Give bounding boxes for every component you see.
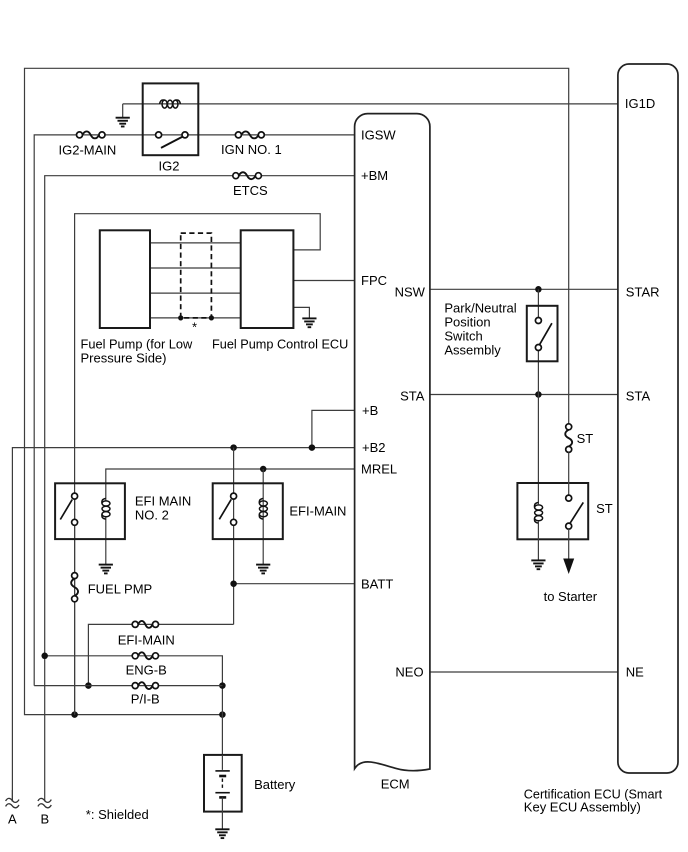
wire battery positive feed to starter circuit (top rail) [25,68,569,714]
pin IGSW [361,127,396,142]
wire STA net [430,394,618,396]
label EFI MAIN NO. 2 [135,493,191,522]
coil EFI-MAIN relay [259,498,267,519]
label *: Shielded note [86,807,149,822]
wire fuel pump to control ECU line 3 [150,292,241,294]
fuse ETCS [233,172,262,179]
junction STA net / park-neutral switch [535,391,542,398]
wire park/neutral switch drop [537,289,539,317]
svg-text:Pressure Side): Pressure Side) [81,350,167,365]
svg-text:Assembly: Assembly [444,342,501,357]
node B break symbol [38,798,51,807]
ground ST relay coil [531,560,545,569]
ground EFI MAIN NO. 2 relay coil [99,565,113,574]
svg-text:IG1D: IG1D [625,96,655,111]
label Fuel Pump (for Low Pressure Side) [81,336,193,365]
fuel pump box [100,230,150,328]
shield drain junction right [209,315,214,320]
label IGN NO. 1 [221,142,282,157]
coil ST relay [535,502,543,523]
ground IG2 relay coil [116,118,130,127]
svg-text:EFI-MAIN: EFI-MAIN [289,503,346,518]
wire ST fuse to relay switch [568,452,570,495]
svg-text:NO. 2: NO. 2 [135,507,169,522]
svg-text:*: Shielded: *: Shielded [86,807,149,822]
pin +B [362,403,378,418]
svg-text:NEO: NEO [395,665,423,680]
pin +BM [361,168,388,183]
junction ENG-B row / node B riser [41,653,48,660]
svg-text:Position: Position [444,314,490,329]
svg-text:ENG-B: ENG-B [126,663,167,678]
relay IG2 box [143,83,199,155]
fuse FUEL PMP [71,573,78,602]
junction +B2 / EFI-MAIN relay switch [230,444,237,451]
wire EFI-MAIN fuse row [88,624,233,685]
wire park/neutral switch to STA net [537,348,539,395]
arrow to starter [563,559,574,575]
label to Starter [544,589,598,604]
label ST relay [596,501,613,516]
label EFI-MAIN relay [289,503,346,518]
switch contact IG2 relay [156,132,188,148]
wire FPC net [293,280,354,282]
wire P/I-B fuse row [34,685,222,687]
coil EFI MAIN NO. 2 relay [102,498,110,519]
junction BATT net / EFI-MAIN fuse drop [230,580,237,587]
label Certification ECU (Smart Key ECU Assembly) [524,787,663,815]
wire EFI-MAIN relay switch to BATT net [233,448,235,625]
svg-text:STAR: STAR [626,284,660,299]
svg-text:+B: +B [362,403,378,418]
relay EFI MAIN NO. 2 box [55,483,125,539]
fuse ST [565,424,572,453]
battery box [204,755,242,812]
label * shield asterisk [192,320,197,335]
fuel pump control ECU box [241,230,294,328]
label ENG-B fuse [126,663,167,678]
svg-text:ST: ST [596,501,613,516]
svg-text:IGN NO. 1: IGN NO. 1 [221,142,282,157]
label ETCS [233,183,268,198]
svg-text:IGSW: IGSW [361,127,396,142]
wire +B2 net to node A [12,448,354,802]
certification ECU box [618,64,678,773]
svg-text:FUEL PMP: FUEL PMP [88,581,153,596]
svg-text:IG2-MAIN: IG2-MAIN [59,142,117,157]
wire STA net to ST relay coil [537,395,539,505]
wire IG2-MAIN fuse feed (from P/I-B row) [34,135,354,686]
label P/I-B fuse [131,692,160,707]
junction battery positive / top rail [71,711,225,718]
label IG2-MAIN [59,142,117,157]
pin IG1D [625,96,655,111]
wire NEO to NE net [430,671,618,673]
svg-text:ETCS: ETCS [233,183,268,198]
svg-text:EFI MAIN: EFI MAIN [135,493,191,508]
label FUEL PMP [88,581,153,596]
wire fuel pump to control ECU line 1 [150,242,241,244]
pin MREL [361,462,397,477]
svg-text:MREL: MREL [361,462,397,477]
ECM box [355,114,430,771]
relay ST box [517,483,588,539]
fuse IG2-MAIN [77,131,106,138]
wire ST relay to starter [568,529,570,560]
svg-text:ST: ST [577,431,594,446]
fuse ENG-B [132,652,158,659]
pin NSW [395,284,426,299]
ground fuel pump control ECU [302,318,316,327]
wire NSW to STAR net [430,288,618,290]
switch contact EFI MAIN NO. 2 [60,493,77,525]
pin STA (certification ECU) [626,389,651,404]
label Fuel Pump Control ECU [212,336,348,351]
pin STAR [626,284,660,299]
svg-text:IG2: IG2 [159,159,180,174]
label ST fuse [577,431,594,446]
wire fuel pump control ECU power feed [75,214,321,715]
wire +B link [312,410,355,447]
svg-text:to Starter: to Starter [544,589,598,604]
wire BATT net [234,583,355,585]
label Park/Neutral Position Switch Assembly [444,300,516,357]
wire ENG-B fuse row [45,656,223,755]
ground battery negative [215,829,229,838]
pin NEO [395,665,423,680]
label IG2 [159,159,180,174]
wire fuel pump to control ECU line 4 (shield drain) [150,317,241,319]
svg-text:P/I-B: P/I-B [131,692,160,707]
svg-text:Fuel Pump Control ECU: Fuel Pump Control ECU [212,336,348,351]
svg-text:+B2: +B2 [362,440,386,455]
svg-text:STA: STA [400,389,425,404]
svg-text:BATT: BATT [361,576,393,591]
junction +B2 / +B link [309,444,316,451]
wire ST relay coil to ground [537,521,539,560]
fuse P/I-B [132,682,158,689]
pin STA (ECM) [400,389,425,404]
fuse IGN NO. 1 [235,131,264,138]
coil IG2 relay [160,100,181,108]
label ECM [381,777,410,792]
wire fuel pump control ECU ground stem [293,307,309,318]
wire EFI-MAIN relay coil to ground [262,469,264,565]
svg-text:+BM: +BM [361,168,388,183]
relay EFI-MAIN box [213,483,283,539]
svg-text:FPC: FPC [361,273,387,288]
junction NSW net / park-neutral switch [535,286,542,293]
wire fuel pump to control ECU line 2 [150,267,241,269]
switch contact EFI-MAIN relay [219,493,236,525]
label Battery [254,777,296,792]
svg-text:EFI-MAIN: EFI-MAIN [118,633,175,648]
svg-text:STA: STA [626,389,651,404]
svg-text:ECM: ECM [381,777,410,792]
svg-text:*: * [192,320,197,335]
label EFI-MAIN fuse [118,633,175,648]
svg-text:B: B [41,811,50,826]
junction MREL / EFI-MAIN relay coil [260,466,267,473]
svg-text:A: A [8,811,17,826]
svg-text:Switch: Switch [444,328,482,343]
shield around fuel pump wires [181,233,212,318]
pin BATT [361,576,393,591]
svg-text:Battery: Battery [254,777,296,792]
wire MREL net [106,469,355,501]
svg-text:Key ECU Assembly): Key ECU Assembly) [524,799,641,814]
wire ETCS row from node B riser [45,176,355,802]
svg-text:NSW: NSW [395,284,426,299]
svg-text:Park/Neutral: Park/Neutral [444,300,516,315]
park/neutral position switch box [527,306,558,362]
junction battery riser / P/I-B row [219,682,226,689]
wire IG2 coil to ground and IG1D net [123,104,618,118]
label B [41,811,50,826]
pin NE [626,665,644,680]
node A break symbol [6,790,19,808]
pin +B2 [362,440,386,455]
wire EFI MAIN NO. 2 switch through FUEL PMP fuse [74,493,76,714]
ground EFI-MAIN relay coil [256,565,270,574]
switch contact park/neutral [535,318,552,351]
svg-text:NE: NE [626,665,644,680]
wire EFI MAIN NO. 2 coil to ground [105,516,107,565]
svg-text:Fuel Pump (for Low: Fuel Pump (for Low [81,336,193,351]
fuse EFI-MAIN [132,621,158,628]
pin FPC [361,273,387,288]
switch contact ST relay [566,495,584,529]
battery cell symbol [215,755,229,829]
junction EFI-MAIN fuse / P/I-B row [85,682,92,689]
label A [8,811,17,826]
shield drain junction left [178,315,183,320]
